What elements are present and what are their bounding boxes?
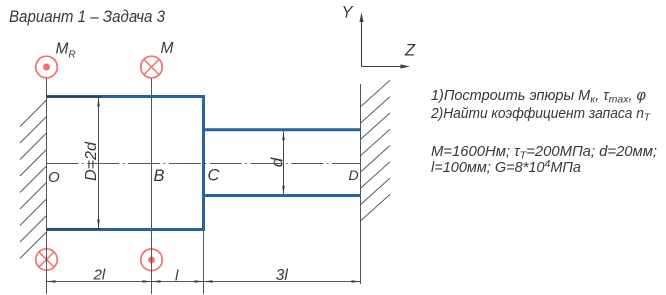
shaft large section top edge: [46, 95, 205, 98]
svg-text:d: d: [268, 157, 287, 167]
svg-text:O: O: [48, 169, 60, 186]
svg-text:3l: 3l: [276, 267, 289, 284]
vertical extension line at C: [203, 231, 205, 294]
axis Y: [359, 13, 363, 67]
moment symbol bottom left (circle with cross): [36, 249, 57, 270]
svg-text:2l: 2l: [93, 267, 106, 284]
svg-text:D=2d: D=2d: [83, 141, 100, 181]
arrow at C pointing left: [204, 280, 213, 283]
shaft small section top edge: [204, 128, 362, 131]
svg-text:D: D: [349, 167, 359, 183]
bottom dimension line: [47, 281, 361, 283]
moment symbol MR (circle with dot, top left): [36, 56, 58, 78]
arrow at D pointing right: [352, 280, 361, 283]
svg-text:Вариант 1 – Задача 3: Вариант 1 – Задача 3: [9, 7, 165, 26]
left wall line: [46, 77, 48, 294]
arrow at O pointing left: [47, 280, 56, 283]
dimension d line: [282, 131, 285, 194]
svg-text:2)Найти коэффициент запаса nТ: 2)Найти коэффициент запаса nТ: [430, 106, 651, 124]
svg-text:MR: MR: [56, 41, 76, 61]
shaft step at C (blue vertical): [202, 95, 205, 231]
svg-text:1)Построить эпюры Mк, τmax,: 1)Построить эпюры Mк, τmax, φ: [431, 88, 646, 106]
svg-text:Y: Y: [342, 4, 354, 22]
vertical line at B: [151, 77, 153, 294]
left wall hatching: [20, 100, 47, 259]
svg-text:B: B: [154, 167, 165, 185]
centerline (dash-dot): [47, 163, 361, 165]
shaft small section bottom edge: [204, 194, 362, 197]
arrow at B pointing left: [152, 280, 161, 283]
extension line over top edge (dark): [46, 96, 102, 98]
svg-text:l=100мм; G=8*104МПа: l=100мм; G=8*104МПа: [431, 158, 581, 176]
svg-text:M: M: [161, 40, 174, 57]
arrow at B pointing right: [143, 280, 152, 283]
extension line over bottom edge (dark): [46, 228, 102, 230]
moment symbol bottom middle (circle with dot): [141, 249, 163, 271]
arrow at C pointing right: [195, 280, 204, 283]
right wall line: [360, 84, 362, 284]
axis Z: [362, 64, 411, 68]
svg-text:C: C: [208, 167, 220, 185]
moment symbol M (circle with cross, top middle): [141, 56, 163, 78]
dimension D=2d line: [97, 98, 100, 229]
right wall hatching: [361, 80, 391, 221]
shaft large section bottom edge: [46, 228, 205, 231]
svg-text:Z: Z: [404, 41, 416, 59]
